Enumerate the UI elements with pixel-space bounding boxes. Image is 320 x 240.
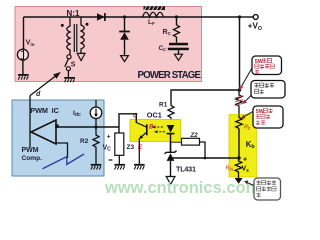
callout red terminal — [239, 56, 281, 90]
ground under OC1 emitter — [134, 165, 145, 170]
ground arrow secondary — [77, 53, 85, 60]
svg-text:Idc: Idc — [73, 110, 81, 118]
wire R1 feed — [171, 90, 240, 106]
svg-text:PWM: PWM — [22, 147, 39, 154]
ground under switch — [64, 78, 75, 82]
callout black terminal — [241, 106, 283, 128]
callout actual resistor — [242, 81, 285, 104]
wire Vin vertical — [23, 17, 25, 50]
ground under Z3 — [118, 155, 120, 164]
svg-text:N:1: N:1 — [67, 9, 80, 18]
opto light arrows — [155, 127, 166, 132]
node Z2 drop — [204, 157, 207, 160]
input dot comparator — [55, 124, 58, 127]
wire to output terminal — [240, 16, 254, 18]
svg-text:Z2: Z2 — [190, 132, 199, 139]
node switch-node — [123, 15, 126, 18]
inductor LF core — [144, 6, 166, 10]
svg-text:www.cntronics.com: www.cntronics.com — [104, 179, 260, 197]
node output filter — [175, 15, 178, 18]
wire under Vin — [22, 60, 24, 75]
wire CF to ground — [178, 50, 180, 54]
node +Vo junction — [238, 15, 241, 18]
inductor LF winding — [143, 12, 164, 17]
wire comparator output — [29, 96, 31, 148]
svg-text:TL431: TL431 — [176, 164, 196, 173]
wire ref line — [172, 157, 239, 159]
wire output column — [239, 17, 241, 90]
transformer T1 secondary winding — [81, 17, 84, 50]
PWM IC box — [12, 100, 104, 176]
svg-text:RbL: RbL — [226, 166, 235, 172]
sawtooth ramp — [43, 154, 85, 169]
svg-text:Comp.: Comp. — [22, 155, 43, 162]
wire Rb to node — [238, 129, 240, 159]
svg-text:Rb: Rb — [244, 125, 251, 131]
wire Idc bottom — [95, 119, 97, 127]
wire ramp input — [56, 143, 68, 158]
optocoupler OC1 box — [130, 120, 181, 142]
wire TL431 to ground — [170, 161, 172, 176]
op-amp PWM comparator — [31, 120, 56, 144]
svg-text:E: E — [138, 144, 143, 151]
resistor R1 — [168, 106, 174, 126]
node control — [94, 125, 97, 128]
wire Z2 left — [171, 141, 182, 143]
wire emitter to ground — [138, 139, 140, 165]
LED OC1 — [167, 125, 175, 152]
ground under R2 — [91, 165, 102, 170]
current source Idc — [90, 107, 102, 119]
wire to freewheel diode — [124, 17, 126, 31]
switch S — [65, 55, 71, 71]
wire drive d — [30, 75, 58, 96]
wire Z3 top — [118, 127, 120, 133]
wire switch to ground — [67, 71, 69, 78]
resistor Rb — [236, 115, 242, 129]
arrowhead drive — [53, 70, 62, 79]
dot primary polarity — [61, 24, 64, 27]
emitter arrowhead — [139, 135, 143, 139]
source Vin — [17, 49, 28, 60]
wire Idc top — [95, 100, 97, 107]
resistor RbL — [235, 158, 241, 178]
transformer T1 core — [74, 24, 77, 52]
wire top rail — [24, 16, 240, 18]
callout ground terminal — [244, 178, 281, 200]
svg-text:PWM IC: PWM IC — [30, 106, 59, 115]
svg-text:d: d — [36, 91, 41, 98]
node R1 tap — [238, 88, 241, 91]
resistor Ract actual sense resistor — [235, 90, 243, 115]
wire comparator input — [56, 126, 119, 128]
svg-text:S: S — [71, 62, 76, 69]
node Vx — [237, 156, 240, 159]
capacitor CF — [168, 43, 189, 50]
wire to Rc — [176, 17, 178, 25]
diode D2 freewheel — [119, 32, 130, 40]
wire secondary return — [80, 50, 82, 54]
transistor OC1 phototransistor — [136, 123, 147, 139]
terminal +Vo — [253, 15, 258, 20]
ground arrow divider — [235, 178, 243, 184]
svg-text:POWER STAGE: POWER STAGE — [138, 70, 202, 81]
wire TL431 branch — [170, 135, 172, 152]
ground arrow TL431 — [166, 177, 175, 185]
svg-text:Z3: Z3 — [127, 144, 135, 151]
highlight box Kb divider — [229, 115, 257, 178]
resistor Rc — [174, 25, 180, 43]
resistor R2 — [93, 127, 99, 165]
label minus Vc — [109, 159, 113, 161]
wire Z2 right — [200, 142, 206, 158]
svg-text:+: + — [107, 133, 111, 140]
ground arrow freewheel — [121, 56, 129, 62]
impedance Z2 — [182, 138, 200, 145]
svg-text:+: + — [243, 157, 247, 164]
power stage box — [15, 7, 202, 82]
shunt regulator TL431 — [165, 151, 177, 161]
wire collector loop — [119, 114, 136, 127]
svg-text:R2: R2 — [80, 138, 89, 145]
svg-text:R1: R1 — [159, 102, 168, 109]
wire freewheel to ground — [124, 40, 126, 56]
diode D1 — [97, 13, 105, 21]
transformer T1 primary winding — [67, 17, 70, 55]
ground arrow CF — [175, 54, 183, 60]
dot secondary polarity — [86, 23, 89, 26]
ground under Vin — [18, 75, 29, 80]
impedance Z3 — [115, 133, 124, 155]
svg-text:OC1: OC1 — [147, 110, 162, 119]
